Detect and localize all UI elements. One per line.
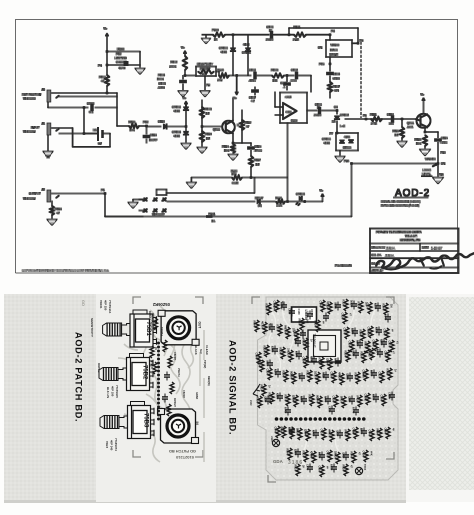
svg-text:C47#: C47# [326, 451, 330, 458]
svg-text:J1: J1 [42, 122, 46, 126]
svg-text:C113: C113 [150, 133, 157, 137]
svg-text:ON: ON [441, 162, 445, 166]
power Vr ref [233, 76, 238, 101]
svg-text:R17#: R17# [276, 325, 280, 332]
power V+ LED [320, 189, 325, 202]
wire R120 drop [287, 123, 289, 202]
svg-text:R4##: R4## [324, 396, 328, 403]
wire bus mid [167, 201, 255, 203]
svg-text:TIP(W): TIP(W) [203, 360, 207, 368]
svg-text:R61#: R61# [260, 385, 264, 392]
svg-text:R29#: R29# [282, 371, 286, 378]
svg-text:R32#: R32# [322, 372, 326, 379]
node P4 [98, 52, 140, 76]
svg-text:OUTPUT: OUTPUT [29, 192, 41, 196]
svg-text:P101: P101 [209, 212, 216, 216]
svg-text:P100: P100 [212, 28, 219, 32]
potentiometer VR102 DRIVE [99, 354, 153, 399]
svg-text:GDA: GDA [273, 459, 284, 464]
svg-text:GD PATCH BD: GD PATCH BD [169, 449, 196, 454]
svg-text:R1##: R1## [382, 304, 386, 311]
signal board PCB outline [258, 297, 399, 480]
svg-text:R1##: R1## [265, 304, 269, 311]
label DRIVE [97, 363, 101, 372]
svg-text:SIGNAL BD.#80865731 (5-30-89): SIGNAL BD.#80865731 (5-30-89) [381, 200, 420, 204]
diode CR103 4148 [172, 104, 189, 128]
potentiometer VR103 LEVEL [100, 402, 154, 452]
resistor R10B 1M [200, 100, 212, 128]
svg-text:R74#: R74# [386, 369, 390, 376]
svg-text:40P 250: 40P 250 [103, 300, 107, 311]
resistor R101 2.2K [293, 25, 330, 42]
svg-text:4148: 4148 [221, 50, 228, 54]
wire top rail [233, 34, 269, 36]
svg-text:3.3K: 3.3K [277, 204, 283, 208]
svg-text:C.B. OK.: C.B. OK. [372, 254, 382, 257]
test point TP [355, 464, 367, 475]
wire J1 tip [51, 128, 73, 147]
svg-text:47: 47 [57, 211, 61, 215]
title block [370, 229, 474, 274]
svg-text:C49#: C49# [362, 451, 366, 458]
svg-text:C19#: C19# [383, 329, 387, 336]
svg-text:2.2K: 2.2K [293, 38, 299, 42]
svg-text:.0068: .0068 [158, 86, 165, 90]
svg-text:C13#: C13# [334, 302, 338, 309]
signal board components [253, 299, 400, 477]
svg-text:R79#: R79# [376, 429, 380, 436]
svg-text:C109: C109 [291, 119, 298, 123]
node P10 [319, 62, 331, 66]
svg-text:C112: C112 [387, 113, 394, 117]
svg-text:BLK LIN: BLK LIN [106, 387, 110, 398]
svg-text:71450002: 71450002 [23, 197, 36, 201]
svg-text:47: 47 [101, 79, 105, 83]
svg-text:C16#: C16# [284, 328, 288, 335]
svg-text:R71#: R71# [310, 356, 314, 363]
svg-text:10K: 10K [416, 142, 421, 146]
svg-text:4558: 4558 [286, 110, 292, 114]
wire P6 rail [345, 114, 416, 121]
node P16 [344, 159, 353, 165]
svg-text:C38#: C38# [380, 395, 384, 402]
svg-text:10K: 10K [130, 128, 135, 132]
svg-text:.47/50: .47/50 [249, 79, 257, 83]
svg-text:#A04: #A04 [285, 95, 292, 99]
svg-text:SENSITIVITY: SENSITIVITY [197, 62, 213, 66]
resistor R110 10K [117, 108, 147, 132]
potentiometer VR101 SENSITIVITY [99, 300, 157, 347]
svg-text:R10B: R10B [271, 68, 278, 72]
svg-text:C103: C103 [249, 68, 256, 72]
svg-text:VR100: VR100 [331, 43, 340, 47]
svg-text:R3##: R3## [298, 373, 302, 380]
svg-text:R78#: R78# [288, 428, 292, 435]
svg-text:R24#: R24# [295, 351, 299, 358]
svg-text:C2##: C2## [271, 346, 275, 353]
svg-text:C32#: C32# [276, 393, 280, 400]
svg-text:R69#: R69# [258, 361, 262, 368]
svg-text:R111: R111 [370, 113, 377, 117]
svg-text:C45#: C45# [294, 449, 298, 456]
diode CR104 4148 [172, 127, 190, 149]
capacitor C100 [48, 101, 117, 114]
svg-text:1M0B: 1M0B [330, 48, 337, 52]
capacitor C114 .47/50 [248, 143, 263, 156]
svg-text:474: 474 [334, 89, 339, 93]
rail wire fb [216, 72, 219, 76]
svg-text:C107: C107 [249, 96, 256, 100]
capacitor C115 4.7/50 [435, 132, 448, 164]
power V+ R102 [181, 46, 187, 57]
corner mark signal BR [386, 452, 394, 459]
wire bus bottom [105, 164, 352, 217]
svg-text:C52#: C52# [306, 311, 310, 318]
svg-text:1K: 1K [295, 428, 299, 431]
svg-text:75B1: 75B1 [145, 322, 151, 337]
svg-text:1K0: 1K0 [232, 172, 237, 176]
svg-text:C100: C100 [87, 102, 95, 106]
corner mark signal BL [268, 475, 276, 482]
svg-text:C58#: C58# [266, 360, 270, 367]
svg-text:C33#: C33# [292, 396, 296, 403]
capacitor C106 25/50 [307, 103, 337, 118]
diode CR100 4148 [219, 35, 236, 76]
svg-text:C44#: C44# [368, 430, 372, 437]
patch labels col [148, 311, 186, 407]
svg-text:C56#: C56# [372, 340, 376, 347]
svg-text:10K: 10K [202, 73, 207, 76]
ground S1 [129, 200, 143, 208]
svg-text:C41#: C41# [320, 429, 324, 436]
svg-text:V+: V+ [233, 96, 237, 100]
svg-text:R48#: R48# [344, 430, 348, 437]
svg-text:R77#: R77# [352, 407, 356, 414]
transistor Q101 [407, 114, 431, 129]
svg-text:C1##: C1## [273, 301, 277, 308]
svg-text:1M: 1M [206, 137, 211, 141]
svg-text:R39#: R39# [308, 395, 312, 402]
corner mark patch TR [195, 297, 203, 304]
svg-text:75B2: 75B2 [142, 365, 148, 380]
corner mark signal TR [386, 297, 394, 304]
svg-text:#4##: #4## [249, 400, 252, 406]
svg-text:R64#: R64# [384, 314, 388, 321]
resistor R116 10K [415, 135, 430, 155]
svg-text:C37#: C37# [364, 394, 368, 401]
svg-text:C18#: C18# [367, 327, 371, 334]
svg-text:R46#: R46# [312, 430, 316, 437]
label GDA 3186 [273, 459, 303, 466]
svg-text:R27#: R27# [376, 349, 380, 356]
label copyright [22, 269, 109, 273]
optocoupler 71190047 [308, 330, 341, 362]
svg-text:R28#: R28# [274, 369, 278, 376]
svg-text:C110: C110 [158, 120, 165, 124]
svg-text:C3##: C3## [362, 370, 366, 377]
svg-text:R68#: R68# [380, 339, 384, 346]
svg-text:R23#: R23# [279, 348, 283, 355]
svg-text:R126: R126 [276, 196, 283, 200]
wire U100 right leg [136, 52, 145, 74]
svg-text:C17#: C17# [343, 328, 347, 335]
diode CR101 4148 [242, 35, 251, 76]
label GD PATCH BD [169, 449, 196, 460]
svg-text:C8#(P): C8#(P) [173, 352, 177, 360]
svg-text:C11#: C11# [366, 303, 370, 310]
svg-text:1M: 1M [389, 304, 393, 308]
svg-text:2K2: 2K2 [218, 78, 223, 82]
svg-text:C46#: C46# [310, 452, 314, 459]
svg-text:P8: P8 [331, 29, 335, 33]
wire J3 tip to node [51, 93, 117, 108]
svg-text:LEVEL: LEVEL [422, 172, 431, 176]
svg-text:AOD-2 SIGNAL BD.: AOD-2 SIGNAL BD. [228, 340, 238, 435]
power V+ Q101 [421, 93, 426, 114]
svg-text:J3: J3 [42, 88, 46, 92]
svg-text:D4: D4 [332, 120, 336, 124]
power V+ clamp [183, 96, 188, 106]
svg-text:P12: P12 [143, 120, 149, 124]
op-amp U101 [275, 92, 307, 123]
svg-text:C66#: C66# [318, 466, 322, 473]
svg-text:P7: P7 [330, 132, 334, 136]
svg-text:3186: 3186 [288, 460, 303, 466]
svg-text:R12#: R12# [357, 302, 361, 309]
svg-text:(R): (R) [258, 204, 262, 208]
svg-text:DR147: DR147 [255, 196, 264, 200]
svg-text:R73#: R73# [334, 358, 338, 365]
svg-text:APPR. BY: APPR. BY [372, 270, 384, 273]
svg-text:R67#: R67# [364, 342, 368, 349]
resistor R126 3.3K [276, 196, 298, 208]
svg-text:P18: P18 [441, 151, 446, 155]
svg-text:P9: P9 [360, 39, 364, 43]
capacitor C105 .1 [281, 76, 291, 91]
corner mark patch BL [133, 450, 141, 457]
svg-text:R76#: R76# [284, 407, 288, 414]
patch resistor row [150, 313, 158, 374]
svg-text:R37#: R37# [284, 395, 288, 402]
capacitor C107 4.7 [249, 87, 258, 103]
svg-text:R63#: R63# [314, 321, 318, 328]
svg-text:C28#: C28# [330, 372, 334, 379]
svg-text:R41#: R41# [340, 397, 344, 404]
svg-text:R49#: R49# [360, 428, 364, 435]
svg-text:.47/50: .47/50 [254, 149, 262, 153]
svg-text:10K: 10K [224, 149, 229, 153]
svg-text:4148: 4148 [344, 135, 350, 139]
svg-text:RED(W): RED(W) [207, 376, 211, 386]
node C8 [334, 105, 338, 112]
svg-text:V+: V+ [421, 93, 425, 97]
svg-text:R10B: R10B [205, 107, 212, 111]
svg-text:CR108: CR108 [296, 192, 305, 196]
wire P1 down [105, 194, 143, 217]
svg-text:R75#: R75# [256, 397, 260, 404]
test point J100 [270, 436, 280, 447]
svg-text:R102: R102 [171, 60, 178, 64]
svg-text:C31#: C31# [378, 372, 382, 379]
jack J1 INPUT [23, 122, 59, 135]
wire to Q100 base [202, 126, 222, 128]
signal board traces [269, 300, 378, 472]
capacitor C113 100PF [143, 126, 157, 143]
dashed board boundary [360, 42, 362, 118]
svg-text:10K: 10K [273, 79, 278, 83]
label SENSITIVITY [90, 318, 94, 338]
svg-text:100K: 100K [157, 77, 164, 81]
pot VR100 DRIVE [318, 40, 352, 64]
svg-text:40P 340: 40P 340 [109, 440, 113, 451]
node P9 [352, 39, 364, 45]
svg-text:600R: 600R [232, 181, 238, 185]
svg-text:J1##: J1## [270, 436, 274, 442]
svg-text:71450003: 71450003 [23, 97, 36, 101]
node P8 [329, 29, 335, 40]
svg-text:C5##: C5## [255, 353, 259, 360]
svg-text:R16#: R16# [268, 324, 272, 331]
svg-text:DRAWN BY: DRAWN BY [372, 247, 386, 250]
svg-text:40P 100: 40P 100 [110, 386, 114, 397]
svg-text:CR101: CR101 [242, 51, 251, 55]
svg-text:J.R.H.: J.R.H. [386, 247, 395, 251]
wire U100 top [106, 51, 140, 53]
svg-text:R65#: R65# [302, 339, 306, 346]
svg-text:2.7K: 2.7K [371, 122, 377, 126]
svg-text:CR102: CR102 [340, 113, 349, 117]
svg-text:C34#: C34# [316, 397, 320, 404]
resistor R102 200K [170, 56, 197, 77]
svg-text:7715S9#5: 7715S9#5 [115, 385, 119, 398]
capacitor C102 .0068 [290, 68, 311, 92]
svg-text:R54#: R54# [350, 452, 354, 459]
svg-text:VR101B: VR101B [425, 157, 436, 161]
svg-text:C53#: C53# [341, 313, 345, 320]
diode C110 [147, 120, 187, 130]
svg-text:1M: 1M [206, 112, 211, 116]
svg-text:C12#: C12# [350, 301, 354, 308]
switch S1 71200047 [139, 190, 167, 217]
svg-text:25/50: 25/50 [314, 113, 321, 117]
svg-text:BLACK: BLACK [194, 345, 198, 355]
svg-text:GD: GD [81, 300, 86, 306]
pot VR101B LEVEL [422, 157, 446, 177]
ground under J1 [44, 134, 53, 158]
svg-text:R119: R119 [205, 132, 212, 136]
resistor R120 600R [187, 169, 288, 188]
svg-text:C35#: C35# [332, 396, 336, 403]
svg-text:R31#: R31# [306, 371, 310, 378]
label AOD-2 PATCH BD. [74, 332, 84, 422]
svg-text:R21#: R21# [375, 327, 379, 334]
svg-text:C64#: C64# [274, 427, 278, 434]
svg-text:C57#: C57# [388, 341, 392, 348]
svg-text:DATE: DATE [422, 247, 429, 250]
svg-text:ON: ON [318, 46, 322, 50]
svg-text:L+C: L+C [340, 124, 345, 128]
transistor Q100 [213, 114, 239, 140]
svg-text:100PF: 100PF [149, 138, 158, 142]
svg-text:C55#: C55# [348, 341, 352, 348]
svg-text:C27#: C27# [314, 373, 318, 380]
op-amp U100 4049 labels [115, 47, 129, 70]
svg-text:R117: R117 [254, 158, 261, 162]
label LEVEL [101, 417, 105, 427]
svg-text:Q100: Q100 [213, 128, 220, 132]
svg-text:PATCH BD.#80865730 (7-06-87): PATCH BD.#80865730 (7-06-87) [381, 204, 419, 208]
patch components mid [162, 340, 174, 416]
svg-text:C108: C108 [267, 25, 274, 29]
svg-text:R#WV#: R#WV# [173, 398, 177, 407]
svg-text:C29#: C29# [346, 373, 350, 380]
svg-text:P10: P10 [319, 62, 325, 66]
jack IN [158, 409, 200, 444]
edge connector dots patch [157, 342, 160, 421]
svg-text:R2##: R2## [359, 330, 363, 337]
wire battery return [73, 146, 110, 148]
svg-text:4148: 4148 [174, 109, 181, 113]
capacitor C104 47/50 [327, 64, 341, 82]
patch board drawing area [96, 294, 216, 502]
corner mark patch BR [195, 450, 203, 457]
svg-text:GRN#: GRN# [195, 392, 199, 400]
svg-text:R#W#A: R#W#A [148, 311, 152, 320]
capacitor C112 390 [387, 113, 394, 126]
svg-text:C10#: C10# [297, 309, 301, 316]
svg-text:C6##: C6## [326, 359, 330, 366]
svg-text:P16: P16 [439, 173, 444, 177]
svg-text:R110: R110 [129, 120, 136, 124]
svg-text:P4: P4 [98, 63, 102, 67]
svg-text:200K: 200K [170, 65, 177, 69]
svg-text:B1: B1 [93, 128, 97, 132]
svg-text:P1: P1 [101, 188, 105, 192]
svg-text:2#2: 2#2 [305, 319, 309, 324]
node P18 [441, 151, 446, 155]
svg-text:C26#: C26# [290, 373, 294, 380]
wire node A down [83, 108, 85, 135]
svg-text:1P(W)A: 1P(W)A [150, 360, 153, 369]
capacitor C103 .47/50 [249, 68, 273, 83]
wire J1 ring [59, 133, 97, 135]
svg-text:C63#: C63# [328, 406, 332, 413]
svg-text:TP##: TP## [363, 464, 367, 471]
svg-text:0102T210: 0102T210 [175, 455, 194, 460]
svg-text:R19#: R19# [351, 328, 355, 335]
node P12 [143, 120, 149, 127]
wire Q100 collector [232, 98, 234, 114]
patch components right [194, 345, 211, 400]
svg-text:4049: 4049 [119, 66, 126, 70]
patch board traces [118, 306, 204, 462]
svg-text:C24#: C24# [384, 351, 388, 358]
svg-text:C104: C104 [333, 72, 340, 76]
label part number [335, 264, 352, 268]
svg-text:P6: P6 [363, 114, 367, 118]
svg-text:COPYRIGHT 1988 PEAVEY ELECTRON: COPYRIGHT 1988 PEAVEY ELECTRONICS CORP. … [22, 269, 109, 273]
label GD faint [81, 300, 86, 306]
power V+ U100 [104, 27, 109, 52]
svg-text:B: B [237, 123, 239, 127]
svg-text:CR106: CR106 [343, 146, 352, 150]
svg-text:R6##: R6## [253, 321, 257, 328]
pot VR sensitivity [196, 62, 216, 96]
svg-text:4148: 4148 [324, 141, 331, 145]
resistor R118 47 [48, 201, 62, 225]
resistor R112 [240, 110, 252, 143]
svg-text:MERIDIAN, MS: MERIDIAN, MS [400, 238, 420, 242]
